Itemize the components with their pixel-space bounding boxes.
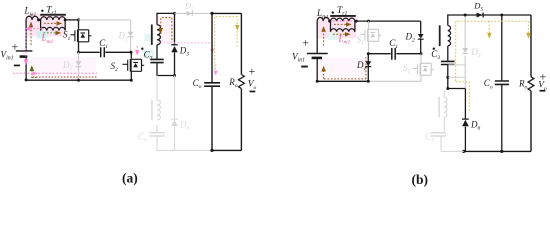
inductor Llk1 B: [317, 17, 329, 21]
current pink small arrow near C3 A: [136, 46, 138, 50]
wire output right B: [464, 15, 531, 151]
wire winding to C3 A: [156, 45, 158, 59]
node transformer right B: [355, 20, 358, 23]
node output bottom left A: [210, 149, 213, 152]
diode D2 gray A: [128, 32, 134, 37]
node C1 right B: [420, 52, 423, 55]
highlight pink wash input loop A: [26, 57, 96, 80]
transformer core bar B: [330, 15, 356, 17]
diode D5 gray A: [187, 11, 193, 16]
capacitor C1 B: [392, 48, 395, 60]
wire gray link rect B: [448, 65, 465, 77]
node C3 mid B: [446, 76, 449, 79]
inductor Lm1 winding B: [331, 29, 355, 32]
node output top left A: [210, 12, 213, 15]
svg-text:+: +: [302, 35, 310, 49]
wire S1 source gray B: [368, 42, 370, 54]
node C1 left A: [77, 51, 80, 54]
current pink in winding B: [333, 20, 353, 22]
current loop brown secondary A: [161, 18, 172, 42]
wire gray D5 top A: [175, 12, 213, 14]
wire S2 source gray B: [420, 76, 422, 82]
polarity dot secondary B: [433, 48, 435, 50]
node rail D1 B: [367, 80, 370, 83]
inductor Llk1 A: [26, 16, 38, 20]
highlight pink box transformer A: [26, 14, 66, 37]
wire left rail A: [25, 20, 27, 80]
wire secondary top corner B: [448, 15, 531, 26]
mosfet S1 A: [71, 30, 92, 43]
capacitor Co B: [495, 81, 509, 84]
highlight pink secondary loop A: [158, 16, 174, 42]
wire C3 bottom B: [447, 65, 449, 88]
wire gray top to D2 A: [79, 20, 131, 52]
wire output loop A: [212, 13, 241, 150]
wire C3 bottom A: [157, 63, 175, 75]
diode D6 gray A: [171, 120, 178, 126]
transformer secondary core bar B: [439, 25, 441, 46]
wire bottom rail gray B: [368, 80, 421, 82]
diode D1 B: [367, 54, 369, 82]
node D5 left B: [464, 14, 467, 17]
node rail left A: [25, 78, 28, 81]
wire Co branch B: [501, 15, 503, 151]
node Co top B: [500, 14, 503, 17]
node bottom D6 B: [462, 150, 465, 153]
current loop olive output B: [456, 21, 529, 81]
current pink down at Co top A: [211, 44, 213, 49]
transformer secondary core bar A: [151, 25, 153, 45]
current loop olive output A: [215, 17, 238, 70]
current green bottom horiz A: [32, 77, 38, 79]
battery Vin1 A: [16, 50, 33, 52]
wire gray D5 branch B: [464, 15, 466, 88]
resistor Ro A: [238, 75, 244, 89]
current pink down rail A: [25, 31, 27, 59]
capacitor C4 gray A: [149, 133, 164, 136]
label - A: [14, 65, 20, 67]
transformer Tr1 primary winding A: [41, 17, 66, 20]
capacitor C4 gray B: [431, 133, 446, 136]
current arrow brown up A: [30, 27, 32, 45]
wire gray sec2 branch B: [441, 91, 464, 152]
node C1 right A: [130, 51, 133, 54]
node D3 top A: [173, 12, 176, 15]
svg-text:(a): (a): [122, 171, 138, 186]
wire S2 drain gray B: [420, 54, 422, 63]
current pink long horiz A: [157, 42, 212, 44]
capacitor C3 B: [441, 61, 455, 64]
node rail S2 A: [130, 79, 133, 82]
wire S2 drain A: [130, 52, 132, 58]
capacitor Co A: [204, 83, 220, 86]
current arrow brown up B: [323, 32, 325, 46]
wire left rail B: [316, 21, 318, 81]
transformer secondary winding A: [157, 25, 160, 45]
current dashed green under Lm1 A: [44, 32, 56, 34]
node rail left B: [316, 80, 319, 83]
transformer Tr1 primary winding B: [331, 18, 355, 21]
svg-text:+: +: [248, 64, 256, 78]
svg-text:(b): (b): [412, 172, 429, 187]
highlight pink wash input loop B: [318, 58, 368, 81]
current pink bottom horiz A: [13, 72, 97, 74]
wire S1 drain A: [78, 20, 80, 29]
transformer gray winding2 A: [157, 100, 160, 120]
wire bottom rail B: [317, 80, 368, 82]
battery Vin1 B: [307, 53, 328, 55]
highlight cyan patch A1: [37, 31, 48, 39]
wire bottom rail A: [26, 79, 131, 81]
diode D5 B: [477, 13, 483, 18]
highlight cyan patch A2: [144, 50, 155, 58]
svg-text:+: +: [11, 40, 19, 54]
wire winding link A: [38, 20, 78, 31]
wire to D6 B: [448, 89, 466, 152]
highlight pink box transformer B: [317, 17, 357, 39]
node S1 top B: [367, 20, 370, 23]
mosfet S1 gray B: [361, 29, 382, 42]
wire C1 A: [79, 51, 132, 53]
current pink arrow left A: [30, 28, 44, 30]
highlight cyan patch B: [328, 33, 339, 40]
transformer secondary winding B: [448, 26, 451, 46]
label dot Tr1 A: [41, 10, 43, 12]
node L-T junction B: [328, 20, 331, 23]
wire secondary top corner A: [157, 13, 175, 24]
wire S1 drain gray B: [368, 21, 370, 29]
node rail S1 A: [77, 79, 80, 82]
inductor Lm1 winding A: [41, 27, 66, 30]
wire top to D2 corner B: [356, 21, 421, 34]
resistor Ro B: [528, 77, 534, 91]
label dot Tr1 B: [332, 11, 334, 13]
capacitor C3 A: [150, 59, 163, 62]
diode D1 gray A: [78, 52, 80, 80]
transformer core bar A: [40, 14, 66, 16]
wire winding link B: [329, 21, 356, 32]
diode D3 A: [174, 13, 176, 75]
current arrow brown in primary A: [44, 22, 57, 24]
wire C1 B: [368, 53, 421, 55]
node S1 top A: [64, 18, 67, 21]
diode D6 B: [462, 120, 469, 126]
wire S2 source A: [130, 72, 132, 81]
wire S1 source A: [78, 42, 80, 52]
mosfet S2 A: [123, 59, 145, 72]
mosfet S2 gray B: [413, 63, 434, 76]
diode D3 gray B: [462, 48, 468, 53]
wire winding to C3 B: [447, 46, 449, 61]
transformer gray winding2 B: [444, 97, 447, 117]
current orange bottom horiz A: [33, 76, 98, 78]
node C1 left B: [367, 52, 370, 55]
node C3 bottom B: [446, 87, 449, 90]
current arrow brown in primary B: [334, 23, 346, 25]
node bottom Co B: [500, 150, 503, 153]
current green up arrow A: [31, 71, 33, 78]
label - B: [301, 66, 308, 68]
current brown bottom horiz B: [324, 78, 366, 80]
capacitor C1 A: [101, 47, 105, 57]
wire gray sec2 branch A: [157, 76, 212, 151]
current brown up right B: [365, 57, 367, 79]
current arrow brown up near battery B: [323, 72, 325, 79]
current arrow brown under Lm1 B: [333, 33, 345, 35]
polarity dot secondary A: [141, 48, 143, 50]
current pink arrow onto Co A: [215, 64, 217, 71]
diode D2 B: [418, 34, 424, 39]
node L-T junction A: [37, 18, 40, 21]
node D3 bottom A: [173, 74, 176, 77]
